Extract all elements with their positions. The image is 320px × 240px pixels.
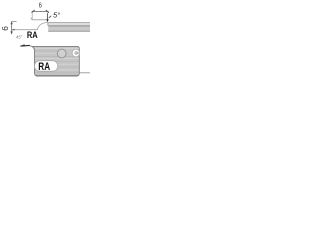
svg-text:45°: 45° <box>16 34 23 39</box>
node plate streaks <box>35 49 79 75</box>
node screw hole <box>57 49 66 58</box>
svg-text:RA: RA <box>38 61 50 73</box>
node knife edge profile curve <box>30 46 35 51</box>
wire vertical dimension line left <box>10 21 16 34</box>
wire reference line right <box>79 72 90 74</box>
svg-text:6: 6 <box>39 0 42 9</box>
node top surface line <box>31 18 48 20</box>
node knife edge tip barb <box>20 44 25 46</box>
node knife plate body <box>32 46 80 76</box>
node knife cutting edge line <box>20 44 29 47</box>
wire horizontal dimension line top <box>32 10 49 19</box>
bottom knife plate figure <box>20 44 90 76</box>
top profile drawing <box>0 0 90 41</box>
wire leader arrow 5 deg <box>46 13 51 26</box>
svg-text:5°: 5° <box>53 11 60 20</box>
node plate bottom shadow edge <box>36 75 78 77</box>
svg-text:6: 6 <box>0 26 10 31</box>
node label badge <box>35 61 58 71</box>
node bottom surface line <box>11 29 37 31</box>
svg-text:RA: RA <box>27 30 38 41</box>
node C-slot keyhole <box>72 49 80 57</box>
node profile radius curve <box>38 22 48 29</box>
background <box>0 0 90 88</box>
node wood board band <box>48 23 90 32</box>
